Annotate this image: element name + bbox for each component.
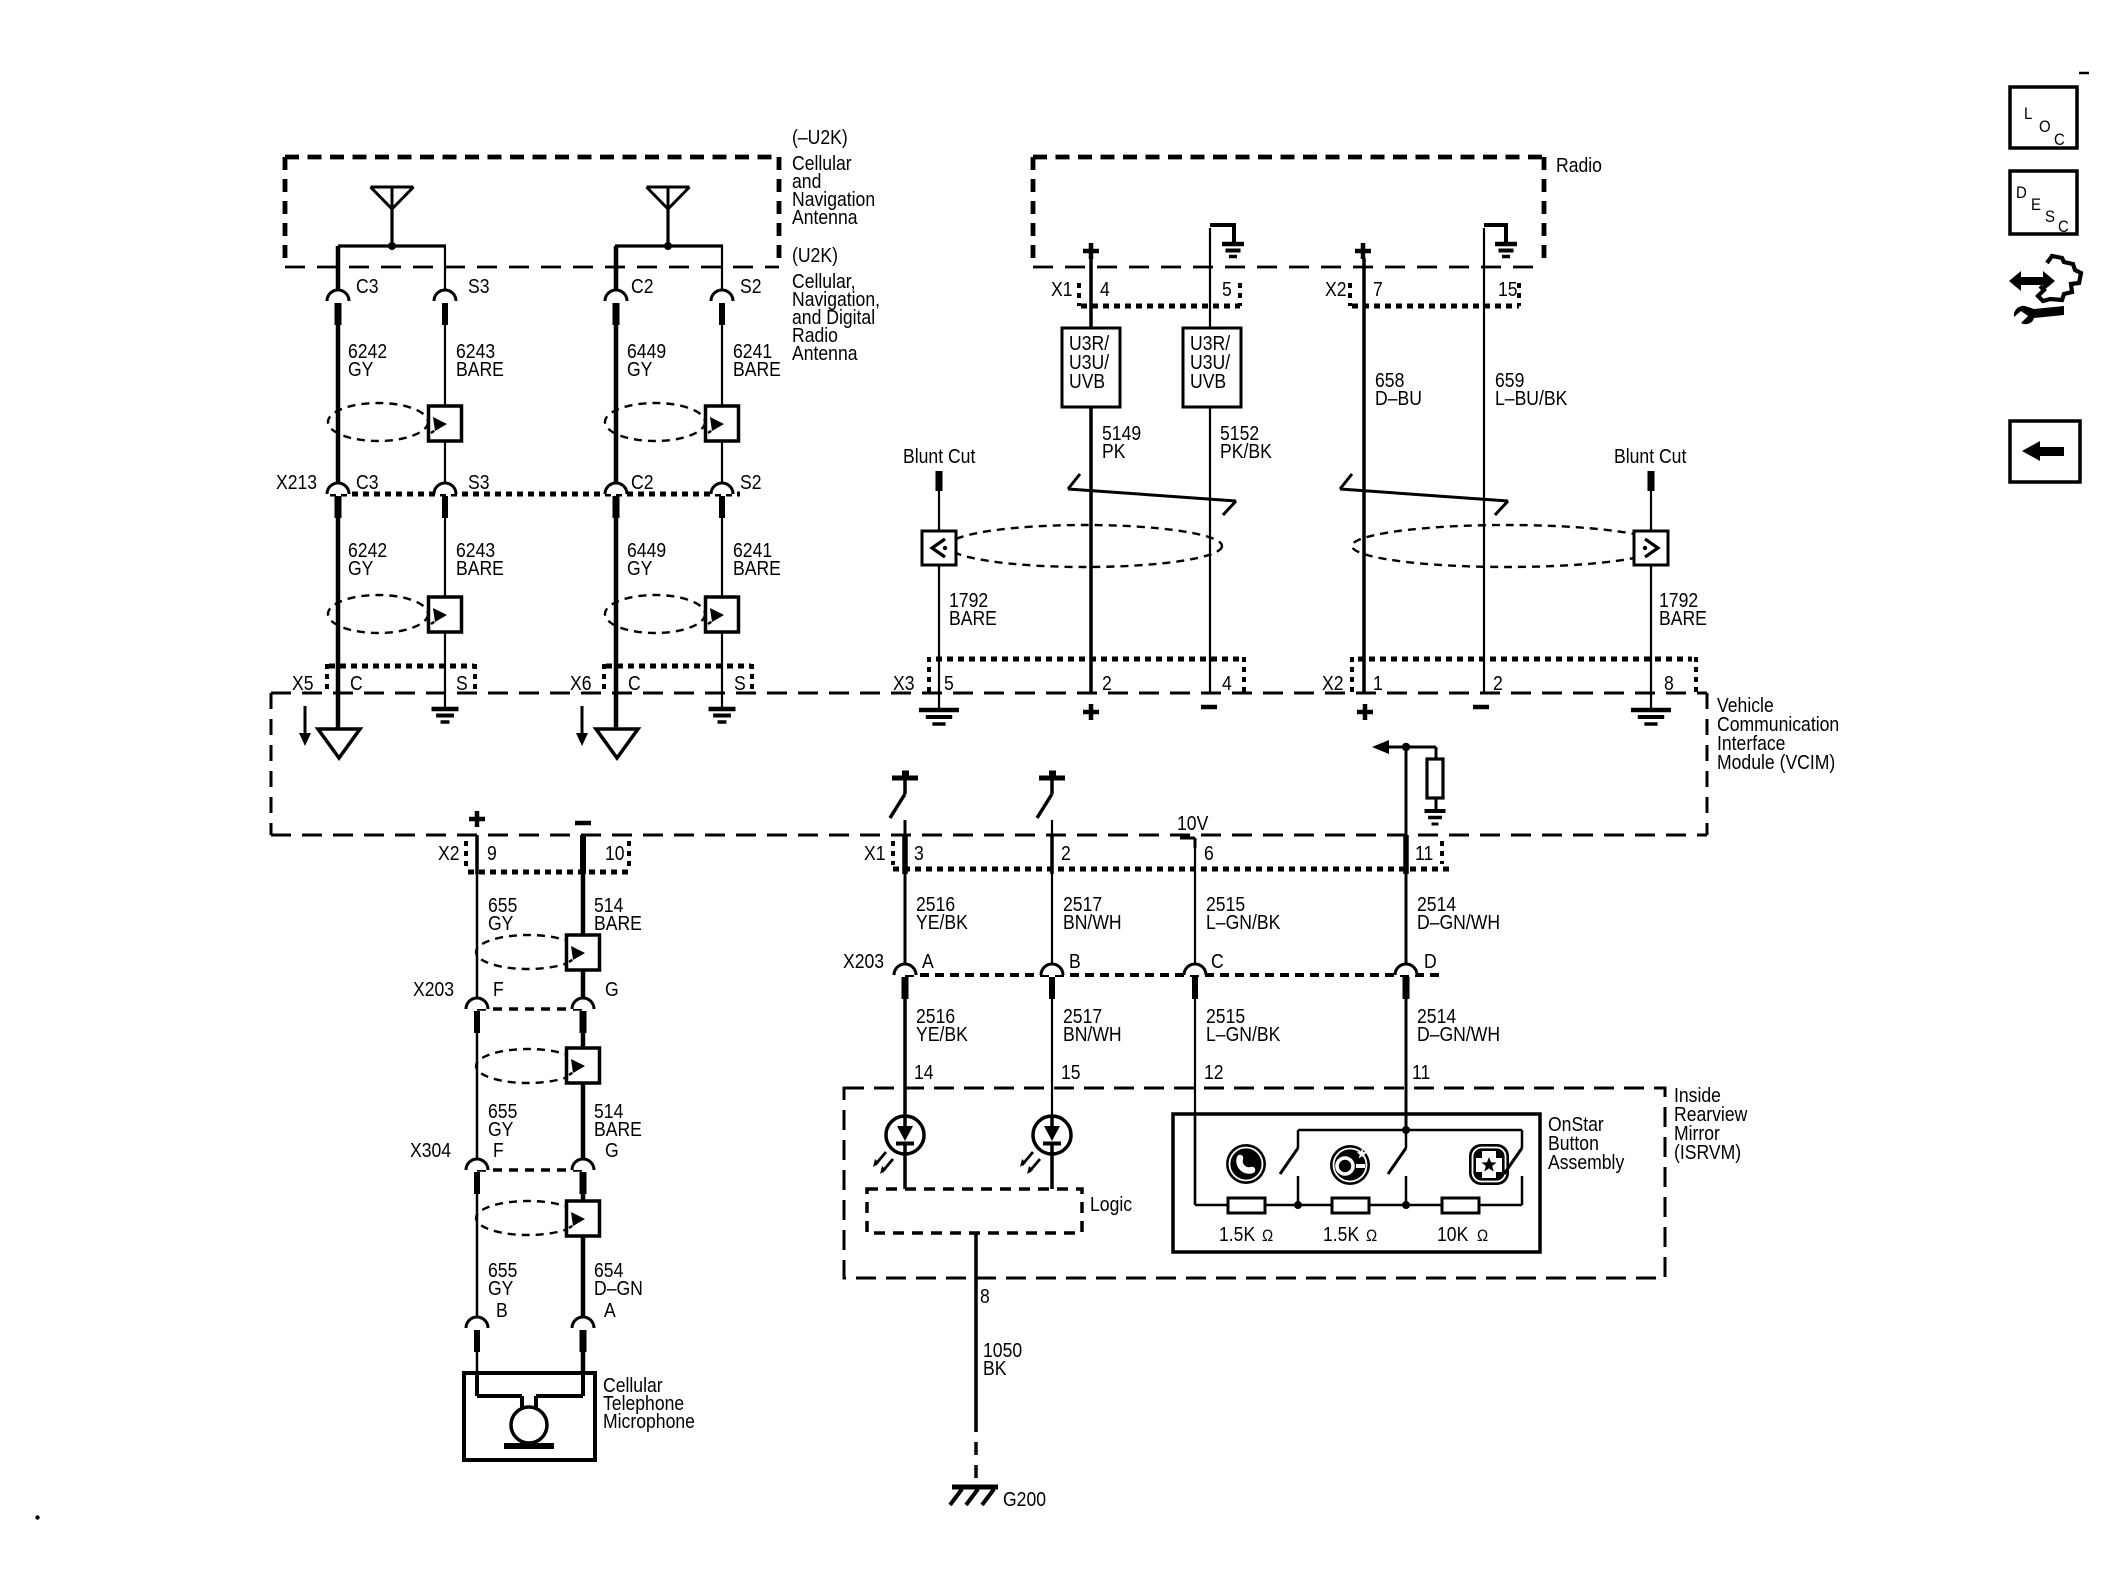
- connector X2 mic left tick: [464, 841, 468, 866]
- label 10V: [1177, 812, 1209, 834]
- wire C2 into VCIM: [614, 666, 619, 730]
- shield termination box (left): [922, 531, 956, 565]
- connector X1 radio left tick: [1077, 283, 1081, 306]
- svg-text:Ω: Ω: [1366, 1227, 1377, 1245]
- svg-text:D: D: [2016, 184, 2027, 202]
- svg-text:X203: X203: [413, 978, 454, 1000]
- svg-text:Logic: Logic: [1090, 1193, 1132, 1215]
- label 1792 BARE (right): [1659, 589, 1707, 629]
- label 15 (radio X2): [1498, 278, 1518, 300]
- connector X213 dotted line: [330, 492, 740, 497]
- Logic dashed box: [867, 1189, 1082, 1233]
- resistor R1 1.5K: [1228, 1198, 1265, 1213]
- svg-text:BK: BK: [983, 1357, 1007, 1379]
- label 6449 GY (1): [627, 340, 666, 380]
- svg-text:10K: 10K: [1437, 1223, 1469, 1245]
- svg-text:G: G: [605, 978, 619, 1000]
- VCIM dashed box: [271, 693, 1707, 835]
- resistor R2 1.5K: [1332, 1198, 1369, 1213]
- label 2516 YE/BK (2): [916, 1005, 968, 1045]
- label F (X304): [493, 1139, 504, 1161]
- connector X203 pin B: [1041, 964, 1063, 999]
- svg-text:15: 15: [1498, 278, 1518, 300]
- antenna symbol A1 (cellular/navigation antenna 1): [371, 187, 414, 250]
- resistor (VCIM pull-up): [1427, 759, 1443, 798]
- wire S2 upper segment (coax shield): [721, 246, 723, 290]
- label G200: [1003, 1488, 1046, 1510]
- svg-text:L–BU/BK: L–BU/BK: [1495, 387, 1568, 409]
- label D (X203): [1424, 950, 1437, 972]
- svg-text:S2: S2: [740, 275, 762, 297]
- svg-text:C: C: [628, 672, 641, 694]
- connector X6 left tick: [602, 664, 606, 694]
- svg-text:D: D: [1424, 950, 1437, 972]
- label C3 (X213): [356, 471, 378, 493]
- wire C3 upper segment (coax center): [336, 246, 341, 290]
- svg-text:D–BU: D–BU: [1375, 387, 1422, 409]
- svg-text:(U2K): (U2K): [792, 244, 838, 266]
- label A (X203): [922, 950, 934, 972]
- connector X6 right tick: [750, 664, 754, 694]
- resistor lower lead: [1435, 798, 1438, 810]
- label (-U2K) Cellular and Navigation Antenna: [792, 126, 875, 228]
- svg-text:11: 11: [1412, 1061, 1430, 1083]
- label 10 (X2): [605, 842, 625, 864]
- connector X3 left tick: [927, 657, 931, 694]
- label 5152 PK/BK: [1220, 422, 1272, 462]
- label 6243 BARE (2): [456, 539, 504, 579]
- radio + terminal (pin X1-4): [1083, 243, 1099, 259]
- svg-text:X203: X203: [843, 950, 884, 972]
- svg-text:C2: C2: [631, 275, 653, 297]
- svg-text:4: 4: [1222, 672, 1232, 694]
- shield loop ellipse (mic row 2): [476, 1049, 580, 1083]
- antenna symbol A2 (cellular/navigation antenna 2): [647, 187, 690, 250]
- label 655 GY (2): [488, 1100, 517, 1140]
- label A (microphone): [604, 1299, 616, 1321]
- wire 6242 GY segment 1: [336, 325, 341, 483]
- svg-text:C: C: [2054, 131, 2065, 149]
- svg-text:GY: GY: [348, 358, 374, 380]
- shield termination box (right): [1634, 531, 1668, 565]
- radio internal ground (pin X2-15): [1484, 223, 1517, 257]
- connector X1 left tick: [891, 841, 895, 865]
- connector X213 pin S3: [434, 483, 456, 518]
- svg-text:A: A: [604, 1299, 616, 1321]
- label C2 (X213): [631, 471, 653, 493]
- label 655 GY (1): [488, 894, 517, 934]
- hotlink icon (arrow and wrench): [2009, 256, 2081, 324]
- label 5 (radio X1): [1222, 278, 1232, 300]
- svg-text:GY: GY: [627, 557, 653, 579]
- label Inside Rearview Mirror (ISRVM): [1674, 1084, 1748, 1163]
- connector X203 pin G: [572, 998, 594, 1033]
- wire junction to resistor: [1406, 747, 1436, 760]
- label C (X6): [628, 672, 641, 694]
- svg-text:O: O: [2039, 118, 2051, 136]
- label S3: [468, 275, 490, 297]
- svg-text:L: L: [2024, 105, 2032, 123]
- label Radio: [1556, 154, 1602, 176]
- svg-text:BARE: BARE: [733, 557, 781, 579]
- label 8 (X2 VCIM): [1664, 672, 1674, 694]
- connector X2 (VCIM) left tick: [1350, 657, 1354, 694]
- wire 1792 BARE (right): [1650, 491, 1652, 693]
- svg-text:S: S: [734, 672, 746, 694]
- connector X203 pin D: [1395, 964, 1417, 999]
- label B (microphone): [496, 1299, 508, 1321]
- connector X213 pin S2: [711, 483, 733, 518]
- LED indicator (pin 15): [1020, 1116, 1071, 1174]
- label S (X5): [456, 672, 468, 694]
- wire 1050 BK solid segment: [974, 1233, 978, 1419]
- node junction (S2/rail): [1402, 1201, 1410, 1209]
- radio + terminal (pin X2-7): [1355, 243, 1371, 259]
- shield drain box (mic row 2): [567, 1048, 600, 1083]
- svg-text:15: 15: [1061, 1061, 1081, 1083]
- label C2: [631, 275, 653, 297]
- VCIM switch output (pin 2): [1037, 771, 1065, 819]
- label pin 15: [1061, 1061, 1081, 1083]
- svg-text:11: 11: [1415, 842, 1433, 864]
- label 2516 YE/BK (1): [916, 893, 968, 933]
- label pin 12: [1204, 1061, 1224, 1083]
- svg-text:PK: PK: [1102, 440, 1126, 462]
- svg-text:10: 10: [605, 842, 625, 864]
- label 514 BARE (1): [594, 894, 642, 934]
- antenna enclosure dashed box (-U2K/U2K): [285, 157, 779, 267]
- svg-text:4: 4: [1100, 278, 1110, 300]
- label Blunt Cut (right): [1614, 445, 1687, 467]
- back arrow button box: [2010, 421, 2080, 482]
- label 2517 BN/WH (1): [1063, 893, 1122, 933]
- svg-text:S3: S3: [468, 275, 490, 297]
- OnStar logo button icon: [1330, 1145, 1370, 1185]
- label 7 (radio X2): [1373, 278, 1383, 300]
- shield loop ellipse (C2/S2 pair, row 2): [605, 595, 705, 633]
- VCIM ground (X6-S): [709, 693, 736, 722]
- wire 2517 inside VCIM (pin 2): [1051, 820, 1053, 835]
- switch S2 (OnStar): [1388, 1148, 1406, 1205]
- svg-text:X2: X2: [438, 842, 460, 864]
- label 4 (X3): [1222, 672, 1232, 694]
- svg-text:BN/WH: BN/WH: [1063, 911, 1122, 933]
- wire 659 L-BU/BK: [1483, 228, 1485, 693]
- VCIM direction arrow (X6-C): [576, 706, 588, 746]
- svg-text:Module (VCIM): Module (VCIM): [1717, 751, 1835, 773]
- label X304: [410, 1139, 451, 1161]
- wire LED 15 to logic: [1050, 1154, 1054, 1189]
- Cellular Telephone Microphone box: [464, 1373, 595, 1460]
- connector X3 dotted line: [936, 657, 1240, 662]
- wire 2517 BN/WH segment 2: [1051, 999, 1053, 1116]
- VCIM - label (X2-2): [1473, 705, 1489, 710]
- label 2515 L-GN/BK (2): [1206, 1005, 1281, 1045]
- VCIM antenna feed triangle (X6-C): [596, 729, 638, 758]
- label 514 BARE (2): [594, 1100, 642, 1140]
- node junction (bus / pin 11): [1402, 1126, 1410, 1134]
- connector X6 dotted line: [606, 664, 751, 669]
- connector pin B (microphone): [466, 1317, 488, 1352]
- OnStar internal top rail (pin 11 bus): [1298, 1130, 1522, 1148]
- label 2514 D-GN/WH (1): [1417, 893, 1500, 933]
- svg-text:2: 2: [1102, 672, 1112, 694]
- shield drain box on S3 (row 1): [429, 406, 462, 441]
- Radio dashed box: [1033, 157, 1544, 267]
- VCIM ground (X5-S): [432, 693, 459, 722]
- VCIM + label (X2-9): [469, 811, 485, 827]
- label 6449 GY (2): [627, 539, 666, 579]
- svg-text:BARE: BARE: [949, 607, 997, 629]
- label 9 (X2): [487, 842, 497, 864]
- twisted-pair marker (658/659): [1340, 474, 1508, 515]
- label 658 D-BU: [1375, 369, 1422, 409]
- label S3 (X213): [468, 471, 490, 493]
- connector X1 right tick: [1440, 841, 1444, 864]
- wire 654 D-GN: [581, 1194, 586, 1317]
- wire 6243 BARE segment 2: [444, 518, 446, 693]
- label 5 (X3): [944, 672, 954, 694]
- node junction (S1/rail): [1294, 1201, 1302, 1209]
- wire 1792 BARE (left) top terminal: [936, 471, 943, 491]
- wire 1050 BK dashed segment: [974, 1419, 978, 1484]
- shield loop ellipse (C3/S3 pair, row 2): [328, 595, 428, 633]
- connector pin S2 (antenna connector): [711, 290, 733, 325]
- label S2 (X213): [740, 471, 762, 493]
- switch S1 (phone): [1280, 1148, 1298, 1205]
- connector X1 radio right tick: [1238, 283, 1242, 306]
- shield drain box on S3 (row 2): [429, 597, 462, 632]
- connector X5 right tick: [473, 664, 477, 694]
- svg-text:F: F: [493, 1139, 504, 1161]
- svg-text:BARE: BARE: [456, 557, 504, 579]
- svg-text:S: S: [456, 672, 468, 694]
- svg-text:1.5K: 1.5K: [1323, 1223, 1360, 1245]
- VCIM direction arrow (X5-C): [299, 706, 311, 746]
- label 3 (X1): [914, 842, 924, 864]
- svg-text:PK/BK: PK/BK: [1220, 440, 1272, 462]
- connector X1 dotted line: [893, 867, 1450, 872]
- OnStar Button Assembly box: [1173, 1114, 1540, 1252]
- VCIM ground (X2-8): [1631, 693, 1671, 724]
- svg-text:X304: X304: [410, 1139, 451, 1161]
- label 2 (X1): [1061, 842, 1071, 864]
- svg-text:X2: X2: [1325, 278, 1347, 300]
- label 11 (X1): [1415, 842, 1433, 864]
- label 6241 BARE (1): [733, 340, 781, 380]
- svg-text:GY: GY: [488, 912, 514, 934]
- connector X2 mic right tick: [627, 841, 631, 866]
- label Logic: [1090, 1193, 1132, 1215]
- wire 12 drop to rail: [1194, 1114, 1197, 1205]
- wire 514 BARE segment 2: [581, 1033, 586, 1159]
- svg-text:Antenna: Antenna: [792, 342, 858, 364]
- label X1 (radio): [1051, 278, 1073, 300]
- svg-text:YE/BK: YE/BK: [916, 911, 968, 933]
- label G (X203): [605, 978, 619, 1000]
- wire LED 14 to logic: [903, 1154, 907, 1189]
- svg-text:X2: X2: [1322, 672, 1344, 694]
- svg-text:1.5K: 1.5K: [1219, 1223, 1256, 1245]
- wire to microphone B: [476, 1352, 479, 1373]
- svg-text:BARE: BARE: [733, 358, 781, 380]
- shield drain box (mic row 3): [567, 1201, 600, 1236]
- radio internal ground (pin X1-5): [1210, 223, 1244, 257]
- svg-text:GY: GY: [488, 1277, 514, 1299]
- svg-text:YE/BK: YE/BK: [916, 1023, 968, 1045]
- DESC button box: [2010, 171, 2077, 236]
- label 5149 PK: [1102, 422, 1141, 462]
- svg-text:C3: C3: [356, 275, 378, 297]
- connector X203 pin A: [894, 964, 916, 999]
- wire 2516 YE/BK segment 1: [902, 835, 908, 964]
- wire 5149 upper segment: [1089, 258, 1093, 328]
- option box U3R/U3U/UVB (right): [1183, 328, 1241, 407]
- label 2515 L-GN/BK (1): [1206, 893, 1281, 933]
- svg-text:G: G: [605, 1139, 619, 1161]
- svg-text:C: C: [350, 672, 363, 694]
- svg-text:14: 14: [914, 1061, 934, 1083]
- label X203 (buttons): [843, 950, 884, 972]
- connector X203 buttons dashed line: [905, 973, 1440, 977]
- svg-text:3: 3: [914, 842, 924, 864]
- svg-text:E: E: [2031, 196, 2041, 214]
- svg-text:1: 1: [1373, 672, 1383, 694]
- wire 1792 BARE (left): [938, 491, 940, 693]
- svg-text:6: 6: [1204, 842, 1214, 864]
- wire 6241 BARE segment 1: [721, 325, 723, 483]
- svg-text:Microphone: Microphone: [603, 1410, 695, 1432]
- svg-text:12: 12: [1204, 1061, 1224, 1083]
- VCIM + label (X2-1): [1357, 704, 1373, 720]
- label 1.5K ohm (R2): [1323, 1223, 1377, 1245]
- wire 2515 L-GN/BK segment 2: [1194, 999, 1196, 1205]
- svg-text:UVB: UVB: [1069, 370, 1105, 392]
- label OnStar Button Assembly: [1548, 1113, 1625, 1173]
- emergency button icon: [1469, 1144, 1509, 1185]
- wire 5152 PK/BK: [1209, 407, 1211, 693]
- label 6242 GY (2): [348, 539, 387, 579]
- wire S3 upper segment (coax shield): [444, 246, 446, 290]
- svg-text:BARE: BARE: [456, 358, 504, 380]
- svg-text:Assembly: Assembly: [1548, 1151, 1625, 1173]
- ground G200: [950, 1487, 998, 1505]
- label 654 D-GN: [594, 1259, 643, 1299]
- svg-text:GY: GY: [348, 557, 374, 579]
- wire 514 BARE segment 1: [580, 835, 586, 998]
- label 6241 BARE (2): [733, 539, 781, 579]
- phone button icon: [1226, 1144, 1266, 1184]
- svg-text:D–GN/WH: D–GN/WH: [1417, 911, 1500, 933]
- LOC button box: [2010, 87, 2077, 149]
- wire 5152 upper segment: [1209, 228, 1211, 328]
- connector X304 pin F: [466, 1159, 488, 1194]
- label X5: [292, 672, 314, 694]
- label X203 (mic): [413, 978, 454, 1000]
- shield drain box on S2 (row 2): [706, 597, 739, 632]
- antenna A2 feed line: [615, 244, 723, 247]
- svg-text:D–GN/WH: D–GN/WH: [1417, 1023, 1500, 1045]
- connector X304 pin G: [572, 1159, 594, 1194]
- label X1 (VCIM): [864, 842, 886, 864]
- svg-text:F: F: [493, 978, 504, 1000]
- stray mark top right: [2079, 72, 2089, 75]
- svg-text:C: C: [1211, 950, 1224, 972]
- wire 655 GY segment 1: [475, 835, 479, 998]
- svg-text:B: B: [1069, 950, 1081, 972]
- label 1792 BARE (left): [949, 589, 997, 629]
- svg-text:C3: C3: [356, 471, 378, 493]
- label C3: [356, 275, 378, 297]
- connector pin A (microphone): [572, 1317, 594, 1352]
- wire pin11 bus drop: [1405, 1130, 1408, 1148]
- label 1.5K ohm (R1): [1219, 1223, 1273, 1245]
- svg-text:BARE: BARE: [594, 912, 642, 934]
- svg-text:X6: X6: [570, 672, 592, 694]
- svg-text:8: 8: [980, 1285, 990, 1307]
- svg-text:B: B: [496, 1299, 508, 1321]
- label Cellular Telephone Microphone: [603, 1374, 695, 1432]
- wire 6242 GY segment 2: [336, 518, 341, 666]
- svg-text:Ω: Ω: [1262, 1227, 1273, 1245]
- wire C2 upper segment (coax center): [614, 246, 619, 290]
- option box U3R/U3U/UVB (left): [1062, 328, 1120, 407]
- svg-text:7: 7: [1373, 278, 1383, 300]
- wire 6243 BARE segment 1: [444, 325, 446, 483]
- svg-text:GY: GY: [488, 1118, 514, 1140]
- connector X213 pin C2: [605, 483, 627, 518]
- connector X2 radio right tick: [1517, 283, 1521, 306]
- connector X2 (VCIM) right tick: [1694, 657, 1698, 694]
- connector X304 dashed line: [477, 1168, 583, 1172]
- connector X5 left tick: [325, 664, 329, 694]
- label 2514 D-GN/WH (2): [1417, 1005, 1500, 1045]
- wire 2514 D-GN/WH segment 1: [1403, 835, 1409, 964]
- svg-text:L–GN/BK: L–GN/BK: [1206, 1023, 1281, 1045]
- svg-text:G200: G200: [1003, 1488, 1046, 1510]
- stray mark bottom left: [35, 1515, 39, 1519]
- node junction (pin 11 net): [1402, 743, 1410, 751]
- label S2: [740, 275, 762, 297]
- connector X2 radio dotted line: [1352, 304, 1519, 309]
- wire 2514 inside VCIM (pin 11): [1405, 747, 1408, 835]
- svg-text:S: S: [2045, 208, 2055, 226]
- connector X213 pin C3: [327, 483, 349, 518]
- label pin 8: [980, 1285, 990, 1307]
- svg-text:2: 2: [1061, 842, 1071, 864]
- wire 6241 BARE segment 2: [721, 518, 723, 693]
- label G (X304): [605, 1139, 619, 1161]
- connector pin C3 (antenna connector): [327, 290, 349, 325]
- wire 10V feed corner: [1180, 838, 1195, 848]
- svg-text:L–GN/BK: L–GN/BK: [1206, 911, 1281, 933]
- connector X203 mic dashed line: [477, 1007, 583, 1011]
- connector X5 dotted line: [329, 664, 474, 669]
- connector pin S3 (antenna connector): [434, 290, 456, 325]
- label 4 (radio X1): [1100, 278, 1110, 300]
- VCIM antenna feed triangle (X5-C): [318, 729, 360, 758]
- svg-text:8: 8: [1664, 672, 1674, 694]
- label (U2K) Cellular Navigation and Digital Radio Antenna: [792, 244, 880, 364]
- svg-text:A: A: [922, 950, 934, 972]
- svg-text:BARE: BARE: [1659, 607, 1707, 629]
- svg-text:C: C: [2058, 218, 2069, 236]
- connector X2 mic dotted line: [468, 870, 629, 875]
- svg-text:(ISRVM): (ISRVM): [1674, 1141, 1741, 1163]
- label 1 (X2 VCIM): [1373, 672, 1383, 694]
- label pin 14: [914, 1061, 934, 1083]
- label 2 (X2 VCIM): [1493, 672, 1503, 694]
